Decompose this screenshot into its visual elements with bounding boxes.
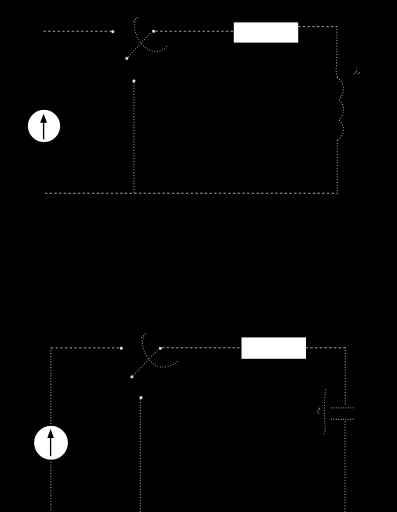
wire left vertical lower (source bottom to bottom edge) bbox=[50, 459, 52, 512]
wire top middle (right contact to resistor) bbox=[156, 30, 234, 32]
inductor L1 (three right-bulging arcs) bbox=[337, 78, 343, 141]
wire right vertical lower (capacitor to bottom edge) bbox=[344, 422, 346, 512]
capacitor C1 top plate bbox=[331, 407, 354, 409]
switch SW2 blade (pole to right contact) bbox=[132, 350, 158, 377]
node switch pole bbox=[125, 57, 128, 60]
capacitor label (tiny colored subpixel text) bbox=[317, 408, 320, 414]
wire right vertical lower (inductor to bottom wire) bbox=[336, 140, 338, 193]
wire right vertical upper (corner down to inductor) bbox=[336, 27, 337, 78]
switch SW1 blade (pole to right contact) bbox=[127, 33, 151, 59]
capacitor voltage arrow (dotted line with bottom hook) bbox=[324, 390, 326, 435]
node switch right contact (bottom circuit) bbox=[159, 347, 162, 350]
node switch pole (bottom circuit) bbox=[130, 375, 133, 378]
wire top-left horizontal (source top to switch left contact) bbox=[44, 30, 112, 32]
wire top-left horizontal (corner to switch left contact) bbox=[51, 347, 120, 349]
current source I2 arrow (black, up) bbox=[47, 429, 54, 456]
wire middle vertical (switch pole branch to bottom wire) bbox=[133, 83, 135, 193]
node switch left contact (bottom circuit) bbox=[120, 347, 123, 350]
node switch left contact bbox=[111, 30, 114, 33]
wire left vertical upper (corner to source top) bbox=[50, 348, 52, 425]
inductor label (tiny colored subpixel text) bbox=[354, 67, 360, 74]
wire top-right (resistor to corner, bottom circuit) bbox=[306, 347, 346, 349]
node switch right contact bbox=[152, 30, 155, 33]
current source I2 (white disk) bbox=[35, 426, 68, 459]
resistor R1 (white box) bbox=[234, 23, 297, 42]
resistor R2 (white box) bbox=[242, 338, 306, 358]
node middle wire top (bottom circuit) bbox=[140, 396, 143, 399]
switch SW1 arrowhead barb bbox=[133, 18, 137, 22]
switch SW2 motion arrow (curved swoosh) bbox=[142, 334, 178, 367]
wire bottom horizontal bbox=[45, 192, 338, 194]
switch SW2 arrowhead barb bbox=[141, 334, 145, 338]
switch SW1 motion arrow (curved swoosh) bbox=[134, 18, 166, 52]
wire top-right (resistor to corner) bbox=[298, 26, 337, 28]
wire right vertical upper (corner down to capacitor) bbox=[344, 348, 346, 405]
wire middle vertical (pole branch to bottom edge) bbox=[139, 400, 141, 512]
capacitor C1 bottom plate bbox=[331, 418, 354, 420]
current source I1 (white disk) bbox=[28, 110, 59, 141]
current source I1 arrow (black, up) bbox=[40, 114, 47, 140]
wire top middle (right contact to resistor, bottom circuit) bbox=[162, 347, 242, 349]
node middle wire top bbox=[132, 80, 135, 83]
